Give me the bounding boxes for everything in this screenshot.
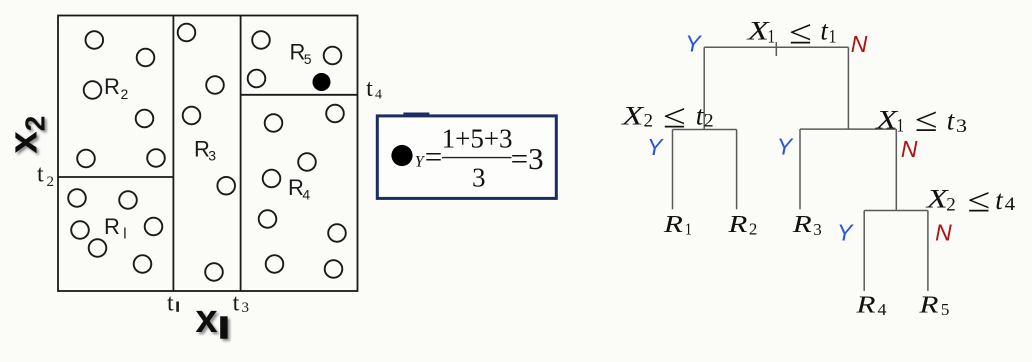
svg-text:R: R (855, 292, 876, 318)
svg-text:x: x (195, 297, 217, 341)
node X1&lt;=t3 bar (800, 128, 896, 130)
svg-text:4: 4 (878, 300, 888, 319)
split line t3 vertical (240, 16, 242, 292)
svg-text:R: R (104, 74, 120, 99)
svg-text:1: 1 (897, 115, 905, 136)
tree label X1 &lt;= t3 (875, 102, 967, 140)
svg-text:2: 2 (644, 111, 654, 132)
svg-text:l: l (123, 226, 126, 243)
svg-text:N: N (935, 220, 952, 246)
axis label X2 (rotated, with shadow) (2, 116, 51, 154)
data point R2-5 (77, 150, 95, 168)
data point R4-4 (263, 170, 281, 188)
edge to leaf R2 (736, 130, 738, 210)
root node bar (704, 46, 848, 48)
sample point (filled) in R5 (313, 73, 331, 91)
svg-text:3: 3 (956, 116, 967, 137)
data point R4-6 (328, 224, 346, 242)
svg-text:R: R (727, 212, 748, 238)
edge down to node X2&lt;=t4 (895, 129, 897, 210)
edge root-right down to node X1&lt;=t3 (847, 47, 849, 129)
edge to leaf R5 (927, 211, 929, 291)
svg-text:≤: ≤ (967, 182, 990, 220)
data point R3-2 (206, 76, 224, 94)
svg-text:R: R (792, 212, 813, 238)
svg-text:x2: x2 (2, 116, 51, 154)
node X2&lt;=t4 bar (864, 210, 928, 212)
svg-text:3: 3 (472, 162, 486, 192)
svg-text:Y: Y (647, 134, 664, 160)
leaf label R2 (727, 212, 757, 239)
svg-text:3: 3 (242, 300, 250, 316)
svg-text:N: N (851, 31, 868, 57)
data point R4-7 (266, 255, 284, 273)
data point R4-3 (298, 153, 316, 171)
data point R3-1 (178, 24, 196, 42)
svg-text:1+5+3: 1+5+3 (442, 124, 513, 154)
svg-text:4: 4 (1005, 194, 1016, 215)
svg-text:=: = (425, 139, 442, 174)
svg-text:R: R (104, 214, 120, 239)
split line t1 vertical (172, 16, 174, 292)
svg-text:1: 1 (685, 220, 692, 239)
data point R4-8 (325, 260, 343, 278)
svg-text:t: t (167, 291, 174, 317)
data point R3-3 (183, 107, 201, 125)
svg-text:4: 4 (375, 87, 382, 102)
fraction bar (442, 157, 512, 159)
svg-text:2: 2 (946, 194, 956, 215)
svg-text:2: 2 (121, 86, 129, 102)
svg-text:2: 2 (749, 220, 758, 239)
formula box frame (377, 116, 556, 198)
svg-text:1: 1 (768, 27, 776, 48)
edge to leaf R4 (863, 211, 865, 291)
data point R1-2 (119, 191, 137, 209)
edge to leaf R1 (672, 130, 674, 210)
svg-text:≤: ≤ (663, 98, 686, 136)
svg-text:Y: Y (777, 134, 794, 160)
svg-text:2: 2 (704, 111, 714, 132)
svg-text:4: 4 (302, 187, 310, 203)
leaf label R3 (792, 212, 822, 239)
svg-text:R: R (918, 292, 939, 318)
tree label X1 &lt;= t1 (746, 14, 836, 52)
data point R1-3 (71, 221, 89, 239)
edge to leaf R3 (799, 129, 801, 209)
root node tick (775, 42, 777, 56)
data point R4-1 (265, 114, 283, 132)
split line t4 horizontal (241, 94, 358, 96)
svg-text:X: X (621, 102, 645, 131)
box tab (403, 113, 429, 118)
data point R2-6 (147, 149, 165, 167)
data point R1-5 (89, 239, 107, 257)
svg-text:1: 1 (829, 27, 837, 48)
data point R1-6 (134, 255, 152, 273)
tree label X2 &lt;= t2 (621, 98, 714, 136)
svg-text:t: t (995, 185, 1004, 215)
data point R2-3 (84, 81, 102, 99)
data point R5-2 (324, 47, 342, 65)
svg-text:t: t (233, 291, 240, 317)
square border (58, 16, 358, 292)
data point R5-3 (248, 70, 266, 88)
split line t2 horizontal (58, 176, 173, 178)
leaf label R4 (855, 292, 887, 319)
svg-text:X: X (875, 105, 899, 134)
svg-text:=3: =3 (511, 141, 544, 176)
svg-text:5: 5 (941, 300, 950, 319)
svg-text:2: 2 (47, 174, 55, 190)
data point R2-2 (137, 49, 155, 67)
svg-text:Y: Y (685, 31, 702, 57)
data point R2-1 (86, 31, 104, 49)
leaf label R1 (663, 212, 692, 239)
leaf label R5 (918, 292, 949, 319)
svg-text:3: 3 (813, 220, 822, 239)
data point R3-4 (217, 177, 235, 195)
svg-text:R: R (663, 212, 684, 238)
axis label X1 (with shadow) (195, 297, 227, 341)
svg-text:t: t (366, 76, 373, 102)
node X2&lt;=t2 bar (673, 129, 737, 131)
data point R5-1 (252, 31, 270, 49)
svg-text:≤: ≤ (915, 102, 938, 140)
data point R4-2 (326, 105, 344, 123)
svg-text:3: 3 (208, 148, 216, 164)
svg-text:t: t (37, 162, 44, 188)
data point R3-5 (205, 263, 223, 281)
tree label X2 &lt;= t4 (925, 182, 1015, 220)
data point R1-4 (145, 218, 163, 236)
svg-text:5: 5 (304, 51, 312, 67)
svg-text:Y: Y (837, 220, 854, 246)
formula sample dot (391, 145, 412, 166)
data point R2-4 (136, 110, 154, 128)
data point R4-5 (259, 210, 277, 228)
edge root-left down to node X2&lt;=t2 (703, 47, 705, 129)
svg-text:t: t (947, 105, 956, 135)
svg-text:≤: ≤ (789, 14, 812, 52)
svg-text:N: N (901, 136, 918, 162)
data point R1-1 (68, 189, 86, 207)
